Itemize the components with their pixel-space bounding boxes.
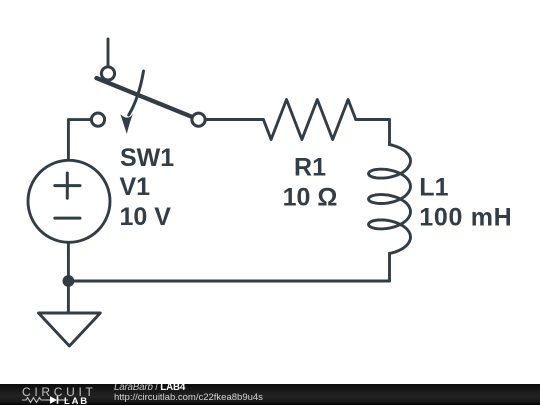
CircuitLab logo	[22, 384, 102, 405]
logo diode	[50, 396, 57, 404]
svg-text:SW1: SW1	[120, 144, 174, 172]
svg-text:R1: R1	[294, 154, 326, 182]
svg-text:V1: V1	[120, 173, 151, 201]
wire stub above switch throw terminal	[107, 39, 110, 67]
wire from inductor L1 bottom to ground rail	[388, 253, 391, 281]
svg-text:10 V: 10 V	[120, 203, 172, 231]
node junction dot at ground rail	[63, 275, 75, 287]
svg-text:L1: L1	[419, 174, 448, 202]
wire from resistor R1 to inductor L1	[356, 120, 390, 145]
wire from switch left terminal to voltage source top	[68, 120, 92, 162]
footer attribution text	[113, 383, 115, 385]
wire bottom rail	[68, 280, 389, 283]
svg-text:10 Ω: 10 Ω	[283, 184, 338, 212]
ground	[39, 313, 101, 346]
footer bar	[0, 384, 540, 405]
resistor R1	[263, 100, 355, 140]
wire from switch right terminal to resistor R1	[204, 118, 263, 121]
wire from voltage source V1 bottom to ground node	[67, 242, 70, 314]
voltage source V1	[28, 160, 110, 242]
logo resistor squiggle	[22, 397, 45, 402]
svg-text:100 mH: 100 mH	[419, 204, 512, 232]
switch SW1	[91, 67, 205, 134]
inductor L1	[369, 145, 411, 254]
